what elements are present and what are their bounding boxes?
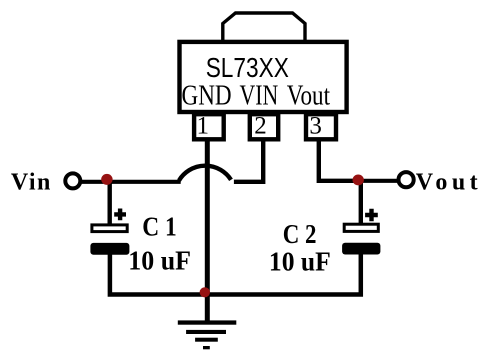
terminal Vin [65,173,80,188]
wire pin2 VIN lead [234,139,263,182]
pin box 1 [194,114,224,139]
C2 bottom plate [342,243,380,255]
junction dot Vin/C1 [101,174,112,185]
C1 top plate [92,225,127,232]
pin box 3 [306,114,336,139]
wire C2 upper lead [359,181,363,226]
svg-text:3: 3 [309,113,322,140]
C2 top plate [344,224,378,231]
svg-text:Vin: Vin [11,169,52,195]
wire bottom rail to C2 [207,255,361,295]
IC U1 body [180,42,347,112]
svg-text:1: 1 [196,113,209,140]
junction dot Vout/C2 [353,175,364,186]
wire Vout rail [358,179,399,183]
wire pin3 Vout lead [319,139,358,181]
ground symbol [178,320,237,349]
wire pin1 GND vertical [205,139,210,322]
C1 polarity plus [114,209,126,221]
svg-text:VIN: VIN [240,81,279,112]
C1 bottom plate [90,243,129,255]
svg-text:SL73XX: SL73XX [206,52,289,83]
svg-text:C 2: C 2 [283,219,317,249]
C2 polarity plus [365,209,378,222]
svg-text:2: 2 [254,113,267,140]
wire C1 lower lead [110,255,207,295]
wire Vin rail [80,180,180,184]
hop arc over GND wire [179,166,231,181]
svg-text:GND: GND [182,81,232,112]
svg-text:Vout: Vout [287,81,330,112]
svg-text:Vout: Vout [416,170,482,196]
pin box 2 [250,114,278,139]
svg-text:C 1: C 1 [142,211,177,241]
svg-text:10 uF: 10 uF [128,245,191,275]
svg-text:10 uF: 10 uF [269,247,331,277]
wire C1 upper lead [107,182,111,226]
junction dot ground [200,287,210,297]
terminal Vout [399,172,414,187]
IC U1 tab [223,13,305,41]
